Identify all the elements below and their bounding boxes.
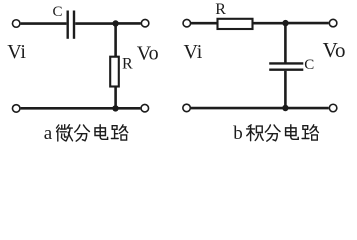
caption hanzi dian 电 (a) bbox=[95, 125, 108, 140]
caption hanzi fen 分 (b) bbox=[265, 125, 280, 141]
wire terminal to resistor R (circuit b) bbox=[191, 22, 217, 25]
node 4 junction dot (bottom, circuit b) bbox=[282, 105, 288, 111]
wire resistor R to node 2 bbox=[114, 87, 117, 109]
svg-text:Vo: Vo bbox=[323, 38, 346, 62]
svg-text:Vi: Vi bbox=[7, 41, 26, 63]
wire node 3 to terminal Vo bbox=[286, 22, 329, 25]
node 1 junction dot (top, circuit a) bbox=[112, 20, 118, 26]
caption hanzi ji 积 bbox=[247, 125, 264, 141]
wire node 3 down to capacitor C (circuit b) bbox=[284, 23, 287, 62]
capacitor C (shunt, circuit b) bbox=[269, 63, 303, 69]
wire bottom rail (circuit a) bbox=[21, 107, 141, 110]
caption hanzi wei 微 bbox=[57, 125, 73, 141]
wire capacitor to node 1 bbox=[75, 22, 116, 25]
terminal Vo top-right (circuit b) bbox=[329, 19, 337, 27]
svg-text:Vo: Vo bbox=[137, 43, 159, 65]
wire bottom rail (circuit b) bbox=[191, 107, 329, 110]
terminal Vo top-right (circuit a) bbox=[141, 19, 149, 27]
svg-text:Vi: Vi bbox=[184, 41, 203, 63]
caption hanzi dian 电 (b) bbox=[286, 125, 299, 140]
svg-text:C: C bbox=[304, 57, 314, 73]
capacitor C (series, circuit a) bbox=[68, 11, 74, 39]
terminal bottom-right (circuit a) bbox=[141, 104, 149, 112]
terminal bottom-left (circuit a) bbox=[12, 105, 20, 113]
wire node 1 to terminal Vo bbox=[116, 22, 141, 25]
node 2 junction dot (bottom, circuit a) bbox=[112, 105, 118, 111]
terminal Vi top-left (circuit a) bbox=[12, 20, 20, 28]
caption hanzi lu 路 (a) bbox=[111, 125, 127, 140]
svg-text:a: a bbox=[44, 123, 53, 144]
wire top-left to capacitor C bbox=[21, 22, 67, 25]
node 3 junction dot (top, circuit b) bbox=[282, 20, 288, 26]
wire node 1 down to resistor R bbox=[114, 24, 117, 58]
svg-text:R: R bbox=[215, 1, 226, 18]
svg-text:R: R bbox=[122, 56, 133, 73]
terminal bottom-right (circuit b) bbox=[329, 104, 337, 112]
wire capacitor C to node 4 bbox=[284, 71, 287, 108]
svg-text:b: b bbox=[233, 123, 243, 144]
resistor R (series, circuit b) bbox=[218, 19, 253, 29]
resistor R (circuit a) bbox=[110, 57, 119, 87]
terminal Vi top-left (circuit b) bbox=[183, 19, 191, 27]
caption hanzi fen 分 (a) bbox=[75, 125, 90, 141]
svg-text:C: C bbox=[53, 4, 63, 20]
wire resistor to node 3 bbox=[253, 22, 286, 25]
terminal bottom-left (circuit b) bbox=[183, 104, 191, 112]
caption hanzi lu 路 (b) bbox=[302, 125, 318, 140]
